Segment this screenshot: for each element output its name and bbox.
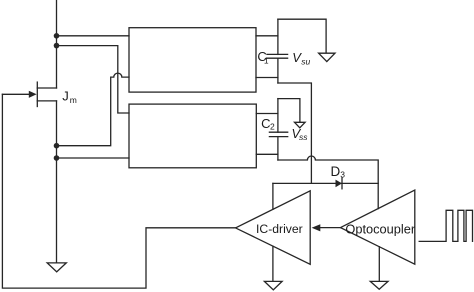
arrowhead into IC-driver input: [312, 224, 321, 231]
transistor J1 gate bar: [36, 82, 38, 106]
svg-text:3: 3: [340, 170, 345, 180]
wire: rail to box2 bottom-left pin: [57, 157, 130, 159]
capacitor C2 plates: [269, 131, 287, 133]
wire: box1 top-right pin: [256, 35, 278, 37]
svg-text:IC-driver: IC-driver: [256, 222, 303, 236]
wire: diode branch horizontal: [273, 182, 378, 184]
svg-text:J: J: [62, 89, 68, 104]
svg-text:D: D: [331, 164, 341, 179]
wire: optocoupler ground stub: [378, 247, 380, 282]
node: junction dot rail/box1 bottom pin: [54, 143, 60, 149]
wire: optocoupler output line: [320, 227, 341, 229]
ground: Vsu ground: [319, 53, 335, 61]
node: junction dot rail/box1 top pin: [54, 33, 60, 39]
wire: rail to box2 top-left pin via vertical drop: [57, 46, 130, 113]
capacitor C2 bottom lead: [277, 137, 279, 160]
wire: left supply rail top segment: [56, 0, 58, 88]
svg-text:m: m: [70, 95, 77, 105]
op-amp U1 IC-driver triangle: [236, 191, 311, 264]
node: junction dot rail/box2 bottom pin: [54, 155, 60, 161]
module box 2 (lower): [129, 104, 256, 168]
svg-text:1: 1: [264, 56, 269, 66]
wire: box1 bottom-right pin: [256, 77, 278, 79]
transistor J1 gate arrowhead: [29, 91, 37, 98]
transistor J1 source stub: [37, 100, 56, 102]
op-amp U2 Optocoupler triangle: [341, 190, 415, 264]
wire: IC-driver ground stub: [272, 246, 274, 281]
wire: box1 bottom-left pin with hop: [57, 73, 130, 146]
svg-text:su: su: [301, 57, 310, 67]
ground: optocoupler ground: [370, 281, 388, 289]
wire: C2 bottom to optocoupler top with hop over rail: [278, 156, 378, 209]
wire: feedback loop gate to IC-driver output: [2, 94, 235, 288]
svg-text:2: 2: [270, 121, 275, 131]
module box 1 (upper): [129, 28, 256, 92]
capacitor C1 bottom lead: [277, 58, 279, 83]
wire: C2 top node to Vss ground: [278, 99, 300, 122]
svg-text:ss: ss: [299, 132, 308, 142]
diode D3: [336, 180, 343, 188]
wire: diode line left end down to IC-driver top edge: [272, 183, 274, 209]
capacitor C1 top lead: [277, 19, 279, 54]
capacitor C2 top lead: [277, 99, 279, 133]
node: junction dot rail/box2 top pin: [54, 43, 60, 49]
wire: C1 top node to ground: [278, 19, 326, 53]
wire: rail to box1 top-left pin: [57, 35, 130, 37]
wire: box2 top-right pin: [256, 113, 278, 115]
wire: box2 bottom-right pin: [256, 153, 278, 155]
transistor J1 drain stub: [37, 87, 56, 89]
svg-text:Optocoupler: Optocoupler: [345, 222, 415, 237]
capacitor C1 plates: [267, 53, 288, 55]
ground: IC-driver ground: [264, 281, 282, 289]
ground: below left rail: [47, 263, 66, 272]
ground: Vss ground: [295, 122, 306, 128]
wire: PWM input square wave: [419, 210, 472, 241]
wire: gate lead: [2, 93, 29, 95]
wire: C1 bottom node to vertical rail down to diode line: [278, 83, 312, 183]
wire: left rail bottom segment to ground: [56, 101, 58, 263]
